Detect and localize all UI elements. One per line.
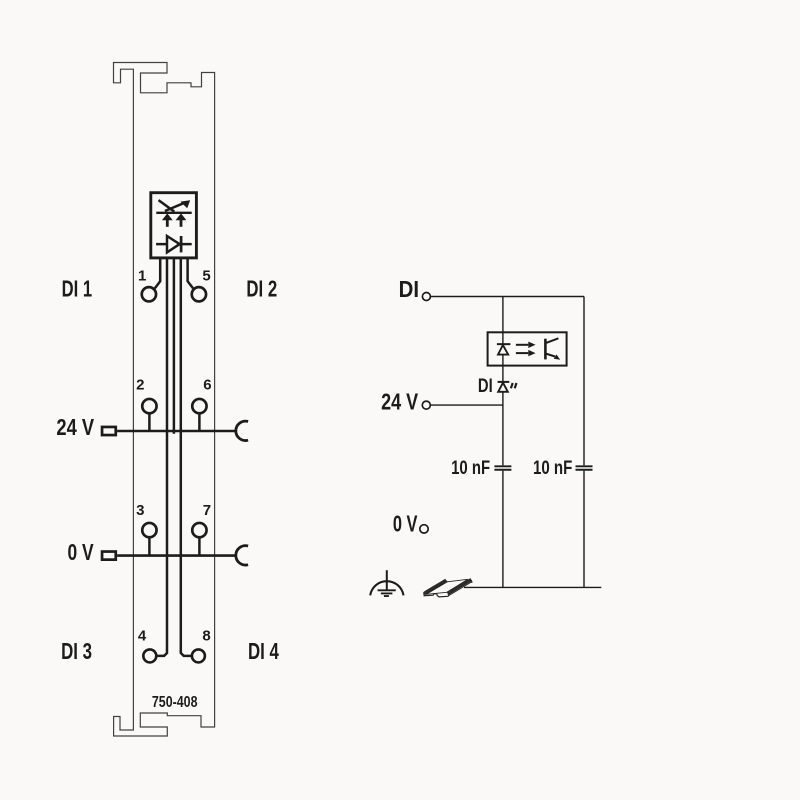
near lip front face (448, 581, 472, 596)
terminal 4 circle (143, 649, 156, 662)
terminal 8 circle (192, 649, 205, 662)
status LED double prime mark (511, 383, 517, 388)
phototransistor collector (545, 338, 558, 343)
node DI input terminal (422, 293, 430, 301)
svg-text:DI 1: DI 1 (62, 276, 93, 302)
0V bus contact arc (236, 546, 248, 565)
24V bus contact arc (236, 421, 248, 440)
wire vertical right branch upper (583, 297, 585, 466)
wire w4 block to terminal 8 (181, 258, 191, 656)
LED symbol diagonal (159, 200, 175, 212)
capacitor C1 plates (494, 466, 511, 469)
LED symbol bar (156, 212, 191, 214)
wire ground bottom (464, 586, 601, 588)
optocoupler LED triangle (498, 345, 508, 355)
wire DI horizontal (431, 296, 584, 298)
far lip front face (426, 581, 447, 594)
wire stub terminal 7 (198, 538, 201, 556)
terminal 1 circle (142, 287, 156, 301)
svg-text:7: 7 (203, 502, 211, 519)
svg-text:DI 2: DI 2 (246, 276, 277, 302)
wire vertical left branch upper (502, 297, 504, 466)
0V rail wire (117, 554, 237, 557)
rail left end cap (423, 591, 426, 595)
phototransistor Q1 bar (544, 339, 547, 360)
wire stub terminal 3 (148, 538, 151, 556)
near lip right end (470, 578, 472, 583)
svg-text:DI: DI (399, 276, 419, 302)
wire stub terminal 6 (198, 414, 201, 432)
svg-text:0 V: 0 V (68, 539, 94, 565)
terminal 7 circle (192, 523, 206, 537)
svg-text:8: 8 (202, 628, 210, 645)
LED symbol arrowhead (180, 200, 190, 208)
node 0V terminal right (420, 525, 428, 533)
wire 24V horizontal (431, 404, 503, 406)
wire w3 block to 24V rail (173, 258, 176, 434)
svg-text:24 V: 24 V (381, 388, 418, 414)
diode D1 cathode bar (180, 236, 183, 252)
24V rail wire (117, 430, 237, 433)
ground earth symbol (370, 570, 403, 596)
diode D1 line in block (156, 243, 192, 246)
svg-text:3: 3 (136, 502, 144, 519)
wire w5 block to terminal 5 (188, 258, 194, 288)
DIN rail symbol (423, 578, 472, 597)
diode D1 triangle (167, 236, 180, 252)
LED light arrow 2 head (176, 213, 187, 220)
wire w2 block to terminal 4 (157, 258, 167, 656)
svg-text:DI 4: DI 4 (248, 638, 279, 664)
phototransistor emitter (545, 354, 555, 357)
rail front bottom profile with foot tab (424, 592, 449, 597)
far lip top face (424, 579, 446, 594)
capacitor C2 plates (576, 466, 593, 469)
phototransistor emitter arrowhead (554, 354, 560, 359)
node 24V terminal right (422, 401, 430, 409)
svg-text:24 V: 24 V (56, 414, 94, 440)
svg-text:10 nF: 10 nF (451, 457, 490, 479)
LED indicator block (151, 193, 197, 258)
24V square connector (102, 427, 116, 435)
svg-text:2: 2 (136, 377, 144, 394)
terminal 5 circle (192, 287, 206, 301)
module outline 750-408 housing (114, 63, 215, 737)
terminal 6 circle (192, 399, 206, 413)
status LED DI bar (498, 381, 510, 383)
svg-text:10 nF: 10 nF (533, 457, 572, 479)
svg-text:DI: DI (478, 376, 493, 397)
status LED DI triangle (498, 383, 508, 392)
LED light arrow 2 stem (180, 219, 183, 227)
LED light arrow 1 head (162, 213, 173, 220)
optocoupler light arrow 2 (516, 352, 528, 354)
svg-text:5: 5 (202, 267, 210, 284)
wire vertical left branch lower (502, 471, 504, 588)
optocoupler U1 box (488, 332, 567, 365)
optocoupler light arrow 1 (516, 344, 528, 346)
svg-text:4: 4 (138, 628, 147, 645)
terminal 2 circle (142, 399, 156, 413)
wire w1 block to terminal 1 (155, 258, 160, 288)
0V square connector (102, 552, 116, 560)
svg-text:0 V: 0 V (393, 510, 418, 536)
svg-text:6: 6 (203, 377, 211, 394)
near lip top face (447, 578, 472, 594)
wire vertical right branch lower (583, 471, 585, 588)
svg-text:1: 1 (138, 267, 146, 284)
channel floor (426, 579, 468, 594)
LED symbol arrow diagonal (165, 203, 185, 211)
terminal 3 circle (142, 523, 156, 537)
svg-text:750-408: 750-408 (152, 694, 198, 711)
svg-text:DI 3: DI 3 (61, 638, 92, 664)
wire stub terminal 2 (148, 414, 151, 432)
optocoupler LED bar (497, 343, 511, 345)
LED light arrow 1 stem (166, 219, 169, 227)
